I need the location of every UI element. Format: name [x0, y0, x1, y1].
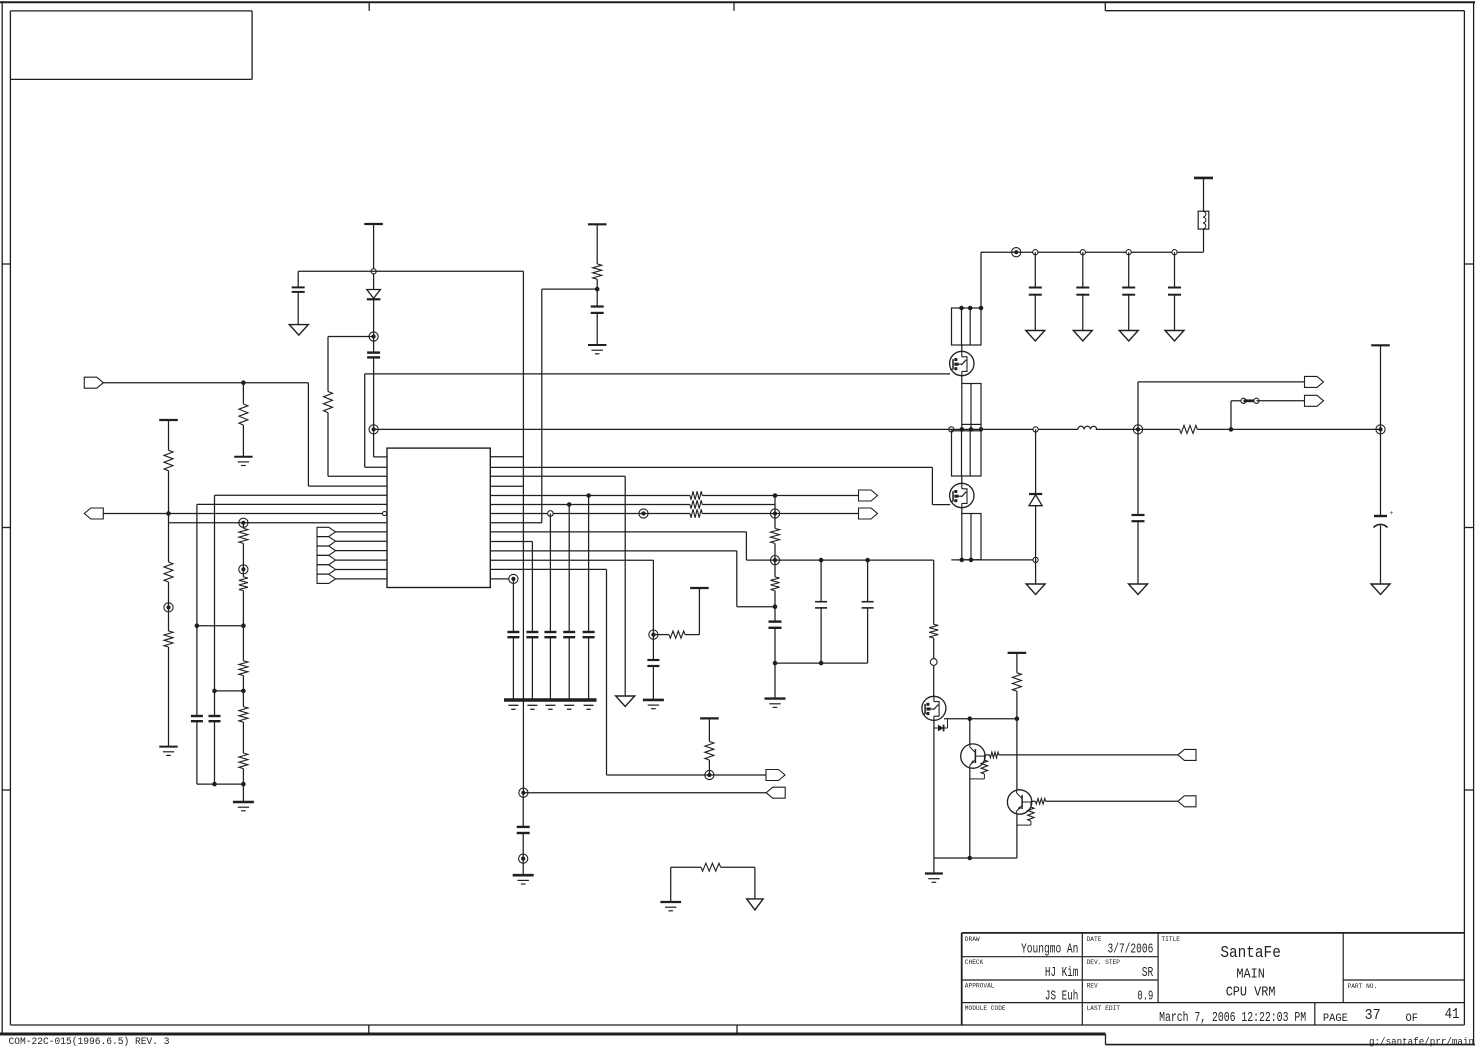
svg-text:g:/santafe/prr/main: g:/santafe/prr/main — [1369, 1037, 1474, 1047]
svg-text:OF: OF — [1406, 1013, 1419, 1025]
svg-text:0.9: 0.9 — [1137, 989, 1153, 1004]
svg-text:DEV. STEP: DEV. STEP — [1087, 959, 1121, 966]
svg-text:CHECK: CHECK — [965, 959, 984, 966]
svg-text:REV: REV — [1087, 983, 1098, 990]
svg-text:COM-22C-015(1996.6.5) REV. 3: COM-22C-015(1996.6.5) REV. 3 — [9, 1036, 170, 1047]
svg-text:JS Euh: JS Euh — [1045, 989, 1079, 1004]
svg-text:CPU VRM: CPU VRM — [1226, 985, 1276, 1001]
svg-text:3/7/2006: 3/7/2006 — [1108, 943, 1154, 958]
svg-text:DRAW: DRAW — [965, 936, 980, 943]
svg-text:SR: SR — [1142, 966, 1154, 981]
svg-text:41: 41 — [1445, 1006, 1460, 1023]
svg-text:TITLE: TITLE — [1161, 936, 1180, 943]
svg-text:SantaFe: SantaFe — [1220, 944, 1281, 963]
svg-text:+: + — [1390, 509, 1394, 517]
svg-text:37: 37 — [1365, 1007, 1381, 1024]
svg-text:MODULE CODE: MODULE CODE — [965, 1005, 1006, 1012]
svg-text:March 7, 2006 12:22:03 PM: March 7, 2006 12:22:03 PM — [1159, 1011, 1306, 1026]
svg-text:PAGE: PAGE — [1323, 1013, 1348, 1025]
svg-text:PART NO.: PART NO. — [1348, 983, 1378, 990]
svg-text:HJ Kim: HJ Kim — [1045, 966, 1079, 981]
svg-text:DATE: DATE — [1087, 936, 1102, 943]
svg-text:MAIN: MAIN — [1236, 967, 1265, 983]
svg-text:APPROVAL: APPROVAL — [965, 983, 995, 990]
svg-text:LAST EDIT: LAST EDIT — [1087, 1005, 1121, 1012]
svg-text:Youngmo An: Youngmo An — [1021, 943, 1078, 958]
